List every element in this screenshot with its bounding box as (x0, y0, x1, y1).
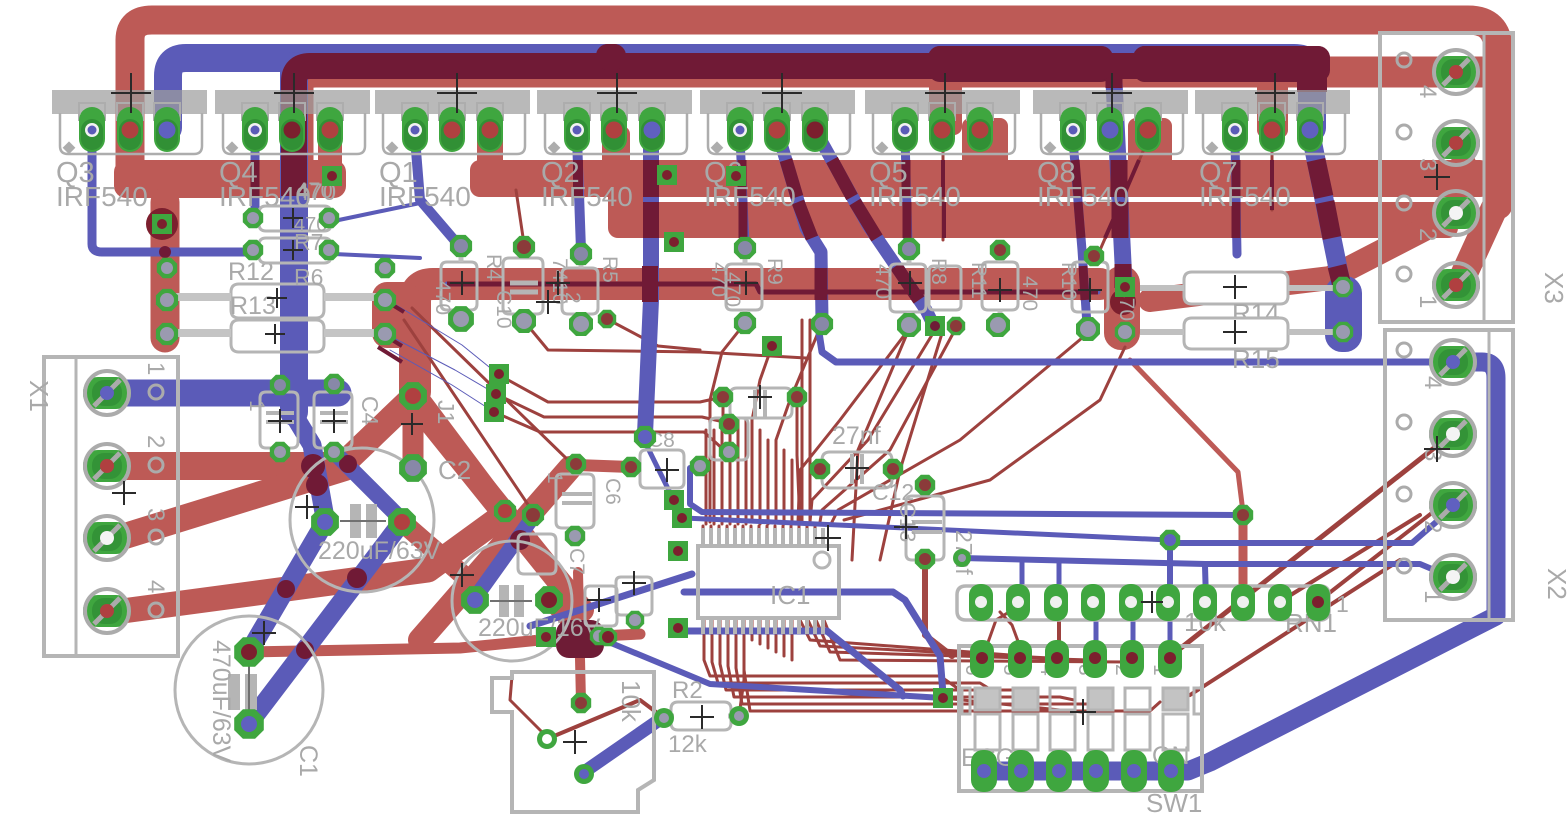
svg-text:IRF540: IRF540 (1037, 181, 1129, 212)
wire: capA right pad to C1 bottom pad (250, 522, 402, 722)
pad SW1 top pin 4 (1045, 640, 1069, 678)
wire: C10 bottom via to right (524, 321, 806, 358)
connector X2 outline (1385, 330, 1567, 620)
wire: red band A under Q3-Q4 (114, 160, 346, 198)
resistor network RN1 outline (957, 586, 1349, 638)
via square at 678,628 (668, 618, 688, 638)
pad Q4 pin 1 (242, 107, 268, 152)
wire: capA right pad leg (402, 522, 463, 575)
overlap: taller maroon top band sections (928, 46, 1113, 82)
wire: red stub Q5 pad2 to top bus (929, 50, 962, 135)
svg-text:1: 1 (1336, 591, 1349, 617)
via at 645,437 (634, 426, 656, 448)
pad Q1 pin 2 (439, 107, 465, 152)
wire: blue elbow to capA left pad (292, 412, 325, 518)
svg-text:C7: C7 (565, 548, 588, 575)
wire: capA left pad to C1 top pad (249, 522, 325, 652)
wire: via 935,326 fan (810, 330, 935, 522)
via at 1088,329 (1076, 317, 1100, 341)
pad SW1 top pin 5 (1008, 640, 1032, 678)
wire: via 820,324 fan to IC (776, 328, 820, 522)
svg-text:C4: C4 (357, 396, 383, 426)
svg-text:X2: X2 (1542, 568, 1567, 600)
overlap: thin blue under mid band (447, 284, 1098, 292)
connector X3 outline (1380, 33, 1567, 322)
pad SW1 bottom pin 2 (1008, 750, 1034, 792)
via at 822,324 (811, 313, 833, 335)
resistor R7 (259, 229, 331, 263)
pad SW1 bottom pin 1 (971, 750, 997, 792)
pad Q8 pin 1 (1060, 107, 1086, 152)
overlap: Q8 pad3 drop (1105, 160, 1139, 238)
svg-text:12k: 12k (668, 731, 708, 758)
svg-text:R10: R10 (1057, 262, 1080, 301)
capacitor C6 (543, 472, 624, 528)
resistor R4 vertical (431, 248, 505, 318)
wire: Q1 pad1 blue to R4 via (415, 138, 456, 242)
overlap: Q7 pad2 (1270, 160, 1274, 210)
svg-text:470: 470 (871, 264, 894, 299)
pad X3 pin 4 (1432, 50, 1480, 94)
wire: top red bus from Q3 to top-right vertical (130, 20, 1498, 205)
svg-text:1: 1 (245, 400, 268, 412)
svg-text:IRF540: IRF540 (541, 181, 633, 212)
pad X2 pin 3 (1429, 412, 1477, 456)
overlap: Q8 pad2 drop (1106, 62, 1123, 88)
via at 280,385 (270, 375, 290, 395)
wire: fan from mid band corner to via cluster (412, 308, 570, 462)
pad Q8 pin 2 (1097, 107, 1123, 152)
via at 413,396 (399, 382, 427, 410)
resistor R2 (664, 677, 738, 758)
svg-text:IRF540: IRF540 (869, 181, 961, 212)
svg-text:X3: X3 (1539, 272, 1567, 304)
pad SW1 bottom pin 4 (1083, 750, 1109, 792)
via at 729,424 (719, 414, 739, 434)
svg-text:470: 470 (431, 280, 454, 315)
jumper J1 red bar (403, 398, 424, 468)
via square at 682,518 (672, 508, 692, 528)
overlap: taller maroon top band sections (928, 46, 1113, 80)
wire: Q8 pad2 wide blue drop to blob via (1113, 62, 1124, 283)
IC1 outline (698, 546, 839, 618)
wire: trimmer pad to R2 via wide blue (584, 718, 662, 772)
via at 599,636 (590, 627, 608, 645)
svg-text:R15: R15 (1232, 344, 1280, 374)
wire: blue y564 to X2 pad1 (962, 558, 1451, 577)
overlap: main top maroon band (294, 66, 1310, 196)
wire: thin red from Q1 mid pad to C10 top via (516, 190, 524, 244)
via at 325,522 (311, 508, 339, 536)
pad Q1 pin 1 (402, 107, 428, 152)
svg-text:3: 3 (142, 508, 169, 521)
resistor R12 (228, 258, 274, 286)
via at 334,452 (324, 442, 344, 462)
wire: thin red Q8 pad3 down (1100, 140, 1148, 250)
overlap: Q6 pad1 (742, 160, 743, 238)
via square at 667,175 (657, 165, 677, 185)
switch SW1 actuator grid (962, 688, 1202, 750)
pad SW1 bottom pin 6 (1158, 750, 1184, 792)
svg-text:C2: C2 (438, 455, 471, 485)
via at 581,254 (570, 243, 592, 265)
wire: blob bottom fan (844, 347, 1125, 520)
wire: Q3 pad1 blue down and right (92, 138, 246, 252)
overlap: Q6 pad2 (786, 160, 821, 300)
wire: R9 bottom via down (710, 323, 745, 522)
resistor R8 vertical (871, 252, 950, 323)
pad ring at 962,558 (953, 549, 971, 567)
wire: second red band from Q4 pad2 corner to right (298, 72, 1496, 188)
svg-text:IRF540: IRF540 (56, 181, 148, 212)
pad Q3 pin 1 (79, 107, 105, 152)
wire: right vertical red into X3 pad1 (1460, 200, 1498, 283)
overlap: Q7 pad1 (1232, 160, 1241, 238)
wire: blue diagonal into via 1170,540 (684, 518, 1170, 540)
pad Q3 pin 3 (154, 107, 180, 152)
via at 385,268 (375, 258, 395, 278)
wire: via 909,325 fan (798, 329, 909, 522)
wire: blue diagonal capB via to square via (599, 638, 943, 698)
pad X3 pin 1 (1432, 263, 1480, 307)
via at 461,246 (450, 235, 472, 257)
switch SW1 outline (959, 646, 1202, 818)
wire: blue blob pad under R14 R15 right vias (1325, 276, 1362, 352)
wire: red diagonals to RN1 right pads (1319, 505, 1442, 601)
pad Q2 pin 2 (601, 107, 627, 152)
via at 524,247 (513, 236, 535, 258)
wire: C5 vias into bundle (722, 400, 725, 420)
wire: mid band right end cap blob over R14 left vias (1104, 266, 1140, 350)
via square at 943,698 (933, 688, 953, 708)
pad RN1 pin 4 (1081, 584, 1105, 621)
overlap: blue stripes over red blob at R13 vias (376, 296, 404, 362)
via at 925,485 (915, 475, 935, 495)
via at 1243,515 (1233, 505, 1253, 525)
capacitor C4 (314, 392, 383, 448)
overlap: Q2 pad1 (573, 160, 583, 197)
pad RN1 pin 7 (1193, 584, 1217, 621)
wire: red from R14 area down to via 1243,515 (1130, 360, 1243, 512)
wire: trimmer pad thin red (510, 676, 547, 737)
capacitor C13 27nf vertical (895, 496, 977, 575)
via at 249,652 (234, 637, 264, 667)
via at 581,324 (569, 312, 593, 336)
wire: red stub Q8 pad3 to band A (1128, 118, 1172, 168)
wire: junction to J1 top pad (340, 399, 411, 467)
resistor R13 (165, 264, 382, 320)
wire: R2 right via to IC area (739, 640, 744, 716)
wire: red stub RN1 row (1057, 604, 1061, 652)
wire: Q2 pad1 blue to R5 via (577, 138, 581, 250)
via square at 935,326 (925, 316, 945, 336)
wire: blue thin from R7 vias right (334, 203, 420, 221)
wire: IC1 bottom pins to SW1 bundle (704, 620, 960, 690)
wire: X1 pad1 blue band (110, 380, 338, 407)
wire: mid red band y284 with left corner down to J1 (415, 284, 1100, 392)
via at 167,268 (157, 258, 177, 278)
capacitor C7 (518, 534, 588, 575)
pad SW1 bottom pin 5 (1121, 750, 1147, 792)
wire: via 943,698 to SW1 cross (943, 698, 1082, 712)
wire: band B right end to X3 pad2 (1440, 215, 1456, 222)
pad SW1 bottom pin 3 (1046, 750, 1072, 792)
svg-text:R13: R13 (230, 292, 276, 320)
wire: IC1 bottom right pins fan to SW1 top pads (800, 620, 1020, 655)
transistor Q6 package outline (700, 90, 855, 212)
wire: SW1 pads small links (986, 604, 1022, 648)
wire: IC1 bottom pin stubs (751, 620, 754, 640)
wire: red diagonal X3 pad2 toward R14 blob (1150, 215, 1452, 300)
transistor Q8 package outline (1033, 90, 1188, 212)
via at 723,397 (713, 387, 733, 407)
wire: step joining band A and band B (608, 170, 646, 230)
wire: R5 bottom via right (607, 319, 700, 350)
wire: C13 bottom via red down (925, 560, 952, 656)
pad Q4 pin 2 (279, 107, 305, 152)
wire: thin red Q5 pad2 down (942, 140, 945, 240)
overlap: Q7 pad3 diagonal (1316, 160, 1343, 290)
via at 1343,332 (1333, 322, 1353, 342)
overlap: Q2 pad3 vertical (650, 160, 651, 302)
wire: R4 top via blue from Q1 (456, 242, 461, 248)
via at 1343,287 (1333, 277, 1353, 297)
svg-text:4: 4 (142, 580, 169, 593)
wire: red stub Q4 pad3 into band A (318, 135, 342, 168)
via at 797,397 (787, 387, 807, 407)
via at 909,325 (897, 313, 921, 337)
resistor R5 vertical (562, 256, 621, 322)
svg-text:J1: J1 (433, 400, 459, 424)
via at 329,218 (319, 208, 339, 228)
pad Q5 pin 1 (892, 107, 918, 152)
via at 385,300 (374, 289, 396, 311)
pad X1 pin 3 (83, 516, 131, 560)
transistor Q2 package outline (537, 90, 692, 212)
capacitor C12 27nf (822, 422, 914, 505)
pad X1 pin 2 (83, 444, 131, 488)
via at 893,469 (883, 459, 903, 479)
svg-text:X1: X1 (24, 380, 54, 412)
via at 167,300 (156, 289, 178, 311)
svg-text:C13: C13 (895, 502, 920, 542)
capacitor 220uF/16V circle (452, 541, 601, 661)
via at 549,600 (535, 586, 563, 614)
resistor R11 vertical (967, 252, 1041, 323)
via square at 736,176 (726, 166, 746, 186)
pad Q6 pin 3 (802, 107, 828, 152)
svg-text:2: 2 (142, 435, 169, 448)
wire: red vertical to trimmer via (578, 572, 581, 702)
svg-text:220uF/63V: 220uF/63V (318, 537, 441, 565)
via at 249,724 (234, 709, 264, 739)
pad X2 pin 1 (1429, 555, 1477, 599)
wire: blue y510 to via 1243,515 (690, 468, 1240, 515)
via at 581,703 (571, 693, 591, 713)
wire: blue vertical Q4 pad2 down through R12 R13 (280, 66, 308, 412)
wire: Q5 pad1 blue (905, 138, 908, 245)
pad SW1 top pin 2 (1120, 640, 1144, 678)
pad ring at 739,716 (729, 706, 749, 726)
wire: C13 red down (925, 560, 952, 656)
via square at 494,412 (484, 402, 504, 422)
pad Q5 pin 2 (929, 107, 955, 152)
trimmer 10k outline (492, 672, 654, 812)
wire: via 645,437 to blue y510 start (643, 438, 681, 515)
transistor Q4 package outline (215, 90, 370, 212)
pad SW1 top pin 6 (970, 640, 994, 678)
resistor 470 under Q4 (253, 178, 333, 236)
via at 576,464 (566, 454, 586, 474)
pad Q5 pin 3 (967, 107, 993, 152)
pad X2 pin 2 (1429, 483, 1477, 527)
overlap: maroon dome at x610 (596, 44, 626, 74)
wire: red medium via to RN1 pad (1239, 518, 1248, 598)
svg-text:27nf: 27nf (832, 422, 881, 450)
wire: blue diagonal through capB area (530, 574, 692, 626)
pad SW1 top pin 3 (1083, 640, 1107, 678)
overlap: Q5 pad1 (906, 160, 907, 238)
capacitor C10 (492, 258, 584, 329)
resistor R10 vertical (1057, 262, 1138, 321)
wire: three red traces from square vias to C8 area (499, 375, 718, 402)
wire: blue across IC1 y631 (684, 631, 903, 696)
via at 1000,250 (990, 240, 1010, 260)
overlap: Q6 pad3 (832, 160, 919, 300)
transistor Q3 package outline (52, 90, 207, 212)
via at 745,323 (734, 312, 756, 334)
overlap: crossing patches (301, 454, 325, 478)
wire: X1 pad3 red diagonal (112, 468, 345, 540)
svg-text:IRF540: IRF540 (704, 181, 796, 212)
wire: blue top bus from Q3 pad3 to Q7 pad3 (168, 58, 1312, 128)
pad X3 pin 2 (1432, 191, 1480, 235)
pad Q2 pin 3 (639, 107, 665, 152)
capacitor C5 (730, 388, 792, 418)
pad SW1 top pin 1 (1158, 640, 1182, 678)
capacitor C16 (616, 577, 652, 615)
svg-text:C6: C6 (601, 478, 624, 505)
via at 956,326 (947, 317, 965, 335)
wire: red stub Q7 pad2 to top bus (1257, 78, 1288, 138)
capacitor C2 220uF/63V circle (290, 448, 441, 592)
wire: red blob behind R12 R13 right vias (372, 282, 420, 348)
via square at 546,637 (536, 627, 556, 647)
via at 402,522 (388, 508, 416, 536)
wire: Q2 pad3 wide blue down to via 645,437 (645, 130, 651, 434)
wire: red band B (608, 202, 1458, 238)
wire: Q6 pad1 blue to R9 via (740, 138, 745, 244)
via at 1170,540 (1160, 530, 1180, 550)
wire: trimmer center pin to R2 (547, 700, 664, 739)
svg-text:R5: R5 (598, 256, 621, 283)
pad RN1 pin 5 (1119, 584, 1143, 621)
wire: Q4 pad1 blue (251, 138, 260, 214)
pad RN1 pin 3 (1044, 584, 1068, 621)
svg-text:470: 470 (1018, 276, 1041, 311)
resistor R14 (1140, 272, 1338, 328)
svg-text:4: 4 (1414, 85, 1441, 98)
wire: via row to SW area (852, 329, 909, 560)
via at 820,469 (810, 459, 830, 479)
wire: capB left pad to via (475, 517, 533, 598)
wire: blue y540 to X2 pad2 (1170, 510, 1450, 543)
connector X1 outline (24, 357, 178, 656)
wire: vertical red pair above C5 (801, 320, 804, 524)
pad Q6 pin 1 (727, 107, 753, 152)
overlap: Q5 pad2 drop (943, 160, 944, 238)
wire: via 1088,329 fan (832, 333, 1088, 522)
via at 475,600 (461, 586, 489, 614)
via at 925,559 (915, 549, 935, 569)
capacitor C8 (640, 429, 684, 488)
wire: blue across IC1 y592 (684, 592, 943, 694)
wire: X1 pad4 red diagonal to via cluster (115, 514, 505, 612)
via at 998,325 (986, 313, 1010, 337)
pad Q7 pin 3 (1297, 107, 1323, 152)
via at 575,536 (565, 526, 585, 546)
wire: Q7 pad1 blue (1235, 140, 1237, 254)
via square at 674,242 (664, 232, 684, 252)
pad X1 pin 4 (83, 589, 131, 633)
svg-text:470uF/63V: 470uF/63V (207, 640, 235, 763)
wire: via 956,324 fan (820, 328, 956, 522)
via at 607,319 (598, 310, 616, 328)
via at 280,452 (270, 442, 290, 462)
wire: IC1 top pin stubs red (702, 526, 705, 546)
via at 334,384 (324, 374, 344, 394)
capacitor C11 small (929, 266, 961, 310)
capacitor C3 (245, 392, 298, 448)
via at 909,249 (898, 238, 920, 260)
svg-text:R2: R2 (672, 677, 703, 704)
wire: red stub Q1 pad3 into band A (477, 132, 503, 170)
pad RN1 pin 6 (1156, 584, 1180, 621)
svg-text:C10: C10 (492, 290, 515, 329)
pad RN1 pin 10 (1306, 584, 1330, 621)
wire: C1 top pad red horizontal to IC area (249, 634, 640, 652)
svg-text:IC1: IC1 (770, 580, 810, 610)
overlap: maroon dome at x610 (596, 44, 626, 70)
resistor R15 (1140, 318, 1338, 374)
pad RN1 pin 8 (1231, 584, 1255, 621)
pad Q7 pin 1 (1222, 107, 1248, 152)
wire: blue stubs RN1 (1167, 540, 1173, 600)
svg-text:470: 470 (721, 272, 744, 307)
svg-text:IRF540: IRF540 (1199, 181, 1291, 212)
via at 533,515 (522, 504, 544, 526)
via square at 496,394 (486, 384, 506, 404)
transistor Q7 package outline (1195, 90, 1350, 212)
via at 524,321 (512, 309, 536, 333)
pad ring at 547,739 (537, 729, 557, 749)
IC1 gray pin stubs (703, 528, 823, 634)
via square at 772,346 (762, 336, 782, 356)
wire: X1 pad2 red to center (110, 452, 342, 480)
wire: Q7 pad3 wide blue diagonal to blue blob (1310, 130, 1343, 293)
via at 253,250 (243, 240, 263, 260)
wire: red stub Q5 pad3 to band A (962, 118, 1008, 168)
wire: wide blue diagonal X2 to SW1 bottom row (984, 604, 1496, 771)
via square at 499,374 (489, 364, 509, 384)
via at 745,248 (734, 237, 756, 259)
via at 635,620 (626, 611, 644, 629)
capacitor C1 470uF/63V circle (175, 616, 323, 777)
svg-text:R9: R9 (763, 258, 786, 285)
via square at 674,500 (664, 490, 684, 510)
svg-text:10k: 10k (616, 680, 646, 723)
wire: Q8 pad1 blue (1073, 140, 1087, 325)
